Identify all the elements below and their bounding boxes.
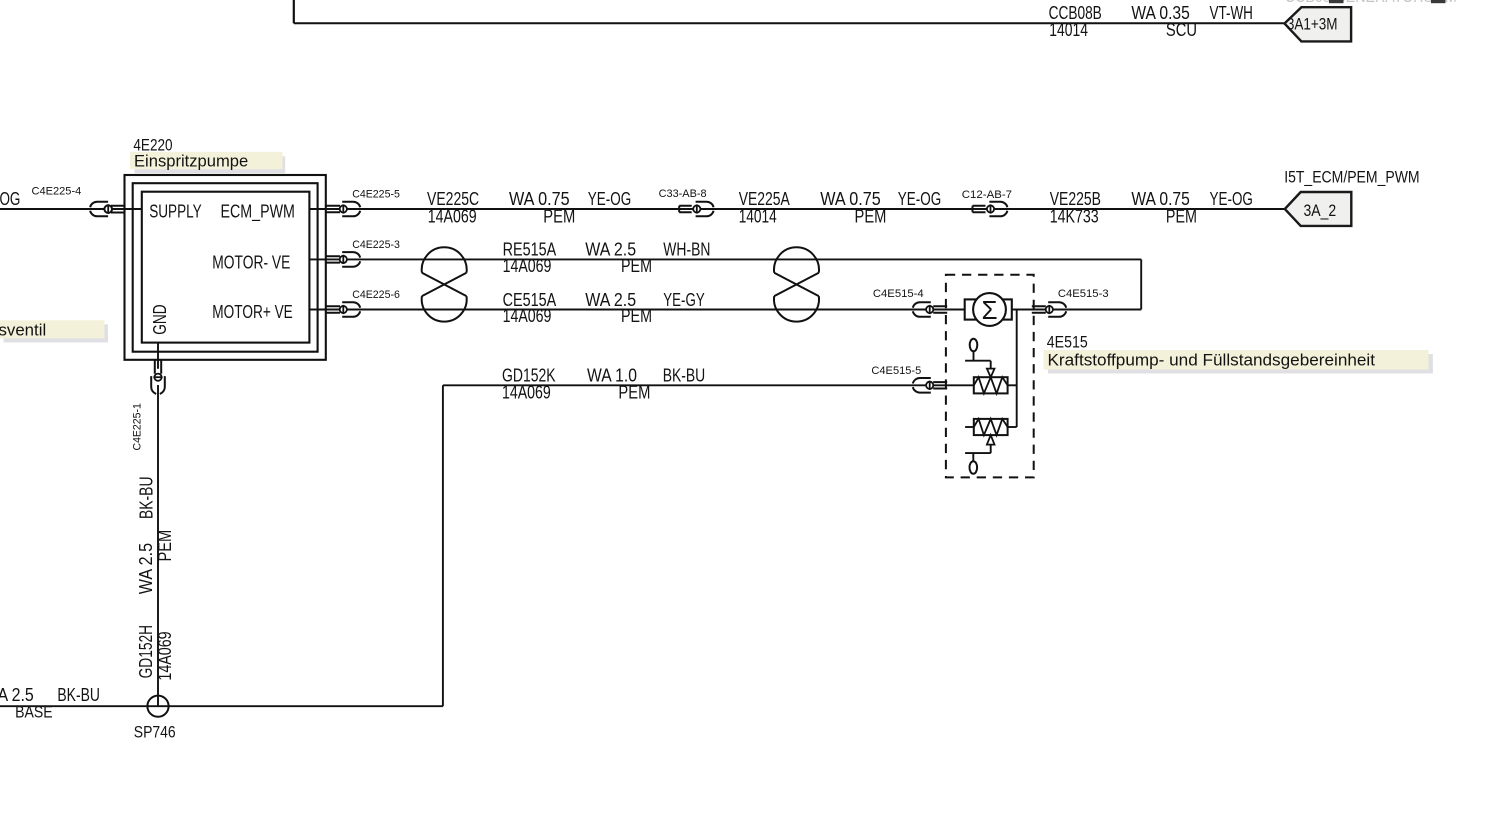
svg-text:PEM: PEM	[621, 256, 652, 276]
wire to bottom terminal	[965, 445, 991, 462]
wire label WA 0.75 PEM	[509, 189, 575, 226]
svg-text:C12-AB-7: C12-AB-7	[962, 189, 1012, 201]
connector C12-AB-7	[962, 189, 1012, 216]
variable resistor R2	[974, 419, 1008, 435]
svg-text:sventil: sventil	[0, 321, 46, 339]
connector C4E225-4	[32, 186, 125, 217]
svg-text:3A1+3M: 3A1+3M	[1287, 16, 1338, 34]
component 4E220 box inner	[142, 192, 310, 343]
wire label VE225A 14014	[739, 189, 790, 226]
wire label WA 2.5 PEM	[585, 240, 652, 276]
svg-text:I5T_ECM/PEM_PWM: I5T_ECM/PEM_PWM	[1284, 168, 1419, 186]
wire from top terminal	[965, 351, 991, 368]
component 4E515 dashed box	[946, 275, 1034, 478]
svg-text:YE-OG: YE-OG	[0, 189, 20, 209]
wiper arrow top (down)	[987, 369, 995, 378]
svg-text:BK-BU: BK-BU	[137, 477, 157, 520]
svg-text:14A069: 14A069	[155, 631, 175, 680]
svg-text:BK-BU: BK-BU	[663, 366, 706, 386]
wire motor right lead	[1012, 309, 1066, 311]
svg-text:ECM_PWM: ECM_PWM	[221, 202, 295, 223]
wire VE225C row1	[309, 208, 1284, 210]
svg-text:C33-AB-8: C33-AB-8	[659, 188, 707, 200]
wire label WA 2.5 PEM	[585, 290, 652, 326]
connector C4E225-3	[326, 239, 400, 267]
svg-text:YE-OG: YE-OG	[588, 189, 631, 209]
svg-text:PEM: PEM	[618, 382, 650, 402]
connector C4E225-6	[326, 289, 400, 317]
svg-text:MOTOR+ VE: MOTOR+ VE	[212, 302, 292, 322]
connector C4E225-5	[326, 188, 400, 216]
wire R1 right lead	[1008, 384, 1017, 386]
component 4E220 box middle	[133, 183, 318, 352]
svg-text:14A069: 14A069	[503, 256, 552, 276]
svg-text:14A069: 14A069	[502, 382, 551, 402]
wire label WA 0.35 SCU	[1131, 3, 1197, 40]
svg-text:YE-GY: YE-GY	[663, 290, 704, 310]
svg-text:Σ: Σ	[981, 295, 997, 325]
wire R2 left stub	[965, 426, 974, 428]
svg-text:4E515: 4E515	[1047, 333, 1088, 351]
svg-text:C4E515-3: C4E515-3	[1058, 288, 1109, 300]
svg-text:SUPPLY: SUPPLY	[149, 202, 202, 222]
connector C33-AB-8	[659, 188, 714, 216]
svg-text:YE-OG: YE-OG	[898, 189, 941, 209]
wire sender common vertical	[1016, 310, 1018, 428]
svg-text:BASE: BASE	[15, 704, 53, 722]
svg-text:C4E225-6: C4E225-6	[352, 289, 400, 301]
wire label WA 0.75 PEM	[1131, 189, 1197, 226]
svg-text:C4E225-1: C4E225-1	[131, 403, 143, 450]
wire CCB08B horizontal	[294, 22, 1286, 24]
wire label RE515A 14A069	[503, 240, 557, 276]
svg-text:WA 2.5: WA 2.5	[0, 685, 34, 705]
wire label GD152K 14A069	[502, 366, 556, 403]
svg-text:BK-BU: BK-BU	[57, 685, 100, 705]
highlight sventil (clipped word)	[0, 320, 104, 338]
svg-text:C4E225-3: C4E225-3	[352, 239, 400, 251]
wire RE515A to C4E515-3	[1066, 309, 1141, 311]
svg-text:14014: 14014	[1049, 20, 1088, 40]
wire BASE bottom from off-page	[0, 705, 443, 707]
svg-text:14A069: 14A069	[503, 306, 552, 326]
svg-text:Kraftstoffpump- und Füllstands: Kraftstoffpump- und Füllstandsgebereinhe…	[1048, 351, 1376, 369]
highlight shadow sventil	[4, 324, 109, 342]
sender terminal top ellipse	[970, 339, 978, 352]
svg-text:WH-BN: WH-BN	[663, 240, 710, 260]
wire label VE225C 14A069	[427, 189, 479, 226]
splice SP746	[147, 696, 168, 717]
wire label WA 1.0 PEM	[587, 366, 650, 403]
twisted pair symbol 1	[422, 247, 467, 321]
node 3A_2 off-page arrow	[1285, 192, 1352, 226]
svg-text:14014: 14014	[739, 207, 777, 227]
highlight shadow Kraftstoffpump	[1048, 354, 1433, 374]
svg-text:PEM: PEM	[855, 207, 887, 227]
svg-text:PEM: PEM	[155, 530, 175, 562]
wire label VE225B 14K733	[1050, 189, 1101, 226]
variable resistor R1	[974, 377, 1008, 393]
twisted pair symbol 2	[774, 247, 819, 321]
connector C4E515-4	[873, 288, 947, 317]
wire GD152K left vertical	[442, 385, 444, 706]
svg-text:C4E515-4: C4E515-4	[873, 288, 924, 300]
fuel pump motor M1	[965, 293, 1012, 326]
svg-text:14A069: 14A069	[428, 207, 477, 227]
sender terminal bottom ellipse	[970, 461, 978, 474]
wire RE515A right vertical	[1140, 259, 1142, 309]
component 4E220 box outer	[125, 175, 326, 360]
svg-text:SP746: SP746	[134, 724, 176, 742]
wire CE515A row3	[309, 309, 965, 311]
svg-text:GND: GND	[150, 304, 170, 334]
node 3A1+3M off-page arrow	[1285, 7, 1352, 41]
svg-text:SCU: SCU	[1166, 20, 1197, 40]
wire label WA 0.75 PEM	[820, 189, 886, 226]
svg-text:YE-OG: YE-OG	[1210, 189, 1253, 209]
wire label CCB08B 14014	[1049, 3, 1102, 40]
svg-text:C4E225-5: C4E225-5	[352, 188, 400, 200]
svg-text:C4E515-5: C4E515-5	[871, 365, 921, 377]
connector C4E515-3	[1032, 288, 1109, 317]
wire R2 right lead	[1008, 426, 1017, 428]
wire GND vertical from box	[157, 343, 159, 707]
wire label CE515A 14A069	[503, 290, 557, 326]
svg-text:PEM: PEM	[1166, 207, 1197, 227]
wiper arrow bottom (up)	[987, 435, 995, 445]
svg-text:14K733: 14K733	[1050, 207, 1099, 227]
wire YE-OG into SUPPLY from off-page	[0, 208, 142, 210]
highlight shadow Einspritzpumpe	[135, 156, 286, 173]
svg-text:C4E225-4: C4E225-4	[32, 186, 82, 198]
svg-text:4E220: 4E220	[133, 136, 172, 154]
svg-text:MOTOR- VE: MOTOR- VE	[212, 252, 290, 272]
svg-text:GD152H: GD152H	[136, 625, 156, 679]
wire GD152K row4	[443, 384, 974, 386]
wire top vertical from off-page	[293, 0, 295, 23]
svg-text:VT-WH: VT-WH	[1210, 3, 1253, 23]
svg-text:Einspritzpumpe: Einspritzpumpe	[134, 153, 248, 171]
connector C4E225-1	[151, 360, 165, 394]
svg-text:PEM: PEM	[621, 306, 652, 326]
svg-text:PEM: PEM	[543, 207, 575, 227]
svg-text:3A_2: 3A_2	[1304, 202, 1337, 220]
highlight Kraftstoffpump- und Fuellstandsgebereinheit	[1044, 350, 1429, 370]
svg-text:WA 2.5: WA 2.5	[136, 543, 156, 594]
wire RE515A row2	[309, 258, 1141, 260]
connector C4E515-5	[871, 365, 947, 393]
highlight Einspritzpumpe	[130, 152, 283, 169]
